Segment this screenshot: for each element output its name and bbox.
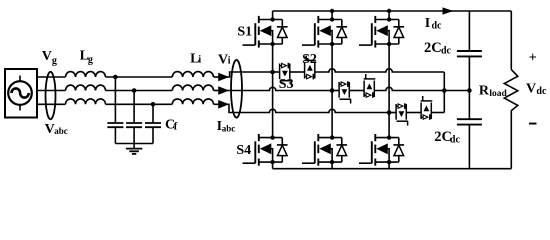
capacitor 2Cdc bottom xyxy=(457,119,482,124)
svg-text:g: g xyxy=(52,55,57,66)
transistor S1 top leg1 xyxy=(243,16,288,48)
ellipse bundle at converter input xyxy=(231,60,242,118)
wire phase c to arrow xyxy=(214,103,219,105)
svg-text:V: V xyxy=(526,82,536,97)
wire bottom stub leg2 xyxy=(331,162,333,169)
wire phase b middle xyxy=(106,90,173,92)
svg-text:V: V xyxy=(218,52,228,67)
node midpoint at capacitors xyxy=(467,88,472,93)
inductor Lg phase c xyxy=(66,99,106,104)
AC source vertical lead xyxy=(19,76,21,111)
ellipse bundle at source xyxy=(46,72,56,119)
node C xyxy=(387,110,392,115)
switch pair3 left xyxy=(396,103,408,125)
svg-text:g: g xyxy=(88,55,93,66)
wire phase b left xyxy=(37,90,66,92)
transistor S4 bottom leg1 xyxy=(243,134,288,166)
switch S2 pair1 right xyxy=(304,56,316,80)
svg-text:f: f xyxy=(174,120,178,132)
wire phase a to arrow xyxy=(214,76,219,78)
wire rail stub leg3 xyxy=(388,11,390,20)
svg-text:dc: dc xyxy=(432,21,443,32)
wire pair1 inner xyxy=(290,71,305,73)
AC source sine wave xyxy=(12,88,29,97)
switch pair3 right xyxy=(421,96,433,120)
AC source circle xyxy=(8,81,32,105)
wire phase a middle xyxy=(106,76,173,78)
capacitor Cf b xyxy=(126,123,142,127)
wire filter drop c xyxy=(152,104,154,123)
arrow phase c xyxy=(218,100,229,109)
wire midpoint bus vertical xyxy=(443,72,445,113)
capacitor 2Cdc top xyxy=(457,51,482,56)
wire phase c left xyxy=(37,103,66,105)
wire leg3 vertical xyxy=(388,44,390,138)
inductor Li phase c xyxy=(172,99,213,104)
svg-text:dc: dc xyxy=(536,86,547,97)
wire pair1 out with hops over leg2 leg3 xyxy=(315,69,445,72)
node A xyxy=(270,70,275,75)
wire phase a left xyxy=(37,76,66,78)
wire filter drop a xyxy=(114,77,116,123)
svg-text:dc: dc xyxy=(441,46,452,57)
wire load branch top xyxy=(510,11,512,70)
wire load branch bottom xyxy=(510,111,512,169)
svg-text:S4: S4 xyxy=(236,143,251,158)
wire bottom stub leg3 xyxy=(388,162,390,169)
transistor bottom leg3 xyxy=(359,134,404,166)
wire bottom cap to rail xyxy=(468,125,470,169)
wire phase a jog up to node A level xyxy=(227,72,273,77)
svg-text:V: V xyxy=(42,49,52,64)
node dot phase b filter tap xyxy=(132,88,137,93)
wire pair2 out with hop over leg3 xyxy=(374,87,469,90)
wire bottom stub leg1 xyxy=(272,162,274,169)
wire leg1 vertical xyxy=(272,44,274,138)
node midpoint bus xyxy=(442,88,447,93)
svg-text:load: load xyxy=(489,89,507,99)
wire filter drop b xyxy=(133,91,135,124)
node dot rail leg3 xyxy=(387,9,391,13)
wire phase c middle xyxy=(106,103,173,105)
switch pair2 left xyxy=(339,81,351,103)
transistor bottom leg2 xyxy=(302,134,347,166)
switch S3 pair1 left xyxy=(280,63,292,85)
wire phase b to node B with hop over leg1 xyxy=(227,87,332,90)
wire pair3 inner xyxy=(406,112,421,114)
node B xyxy=(330,88,335,93)
wire node A to pair1 xyxy=(273,71,280,73)
arrow phase b xyxy=(218,86,229,95)
wire pair3 out xyxy=(431,112,444,114)
wire rail stub leg2 xyxy=(331,11,333,20)
svg-text:S2: S2 xyxy=(302,52,317,67)
svg-text:R: R xyxy=(479,84,490,99)
transistor top leg3 xyxy=(359,16,404,48)
dc minus rail xyxy=(273,168,512,170)
wire cap common rail xyxy=(115,143,153,145)
svg-text:S3: S3 xyxy=(279,77,294,92)
arrow phase a xyxy=(218,73,229,82)
inductor Li phase a xyxy=(172,72,213,77)
wire leg2 vertical xyxy=(331,44,333,138)
wire pair2 inner xyxy=(349,90,364,92)
svg-text:I: I xyxy=(425,16,430,31)
voltage source box xyxy=(5,69,37,118)
wire midpoint to bottom cap xyxy=(468,91,470,120)
svg-text:i: i xyxy=(228,55,231,66)
capacitor Cf a xyxy=(107,123,123,127)
svg-text:abc: abc xyxy=(54,126,68,136)
inductor Li phase b xyxy=(172,85,213,90)
inductor Lg phase a xyxy=(66,72,106,77)
wire rail stub leg1 xyxy=(272,11,274,20)
ground xyxy=(133,144,135,149)
node dot phase c filter tap xyxy=(151,102,156,107)
switch pair2 right xyxy=(364,74,376,98)
node dot rail leg2 xyxy=(330,9,334,13)
wire below caps xyxy=(115,127,153,143)
wire phase b to arrow xyxy=(214,90,219,92)
wire phase c jog down to node C with hops over leg1 leg2 xyxy=(227,104,389,112)
inductor Lg phase b xyxy=(66,85,106,90)
wire node C to pair3 xyxy=(389,112,396,114)
svg-text:i: i xyxy=(198,55,201,66)
svg-text:dc: dc xyxy=(450,135,461,146)
wire between top cap and midpoint xyxy=(468,56,470,90)
svg-text:2C: 2C xyxy=(424,40,442,56)
dc plus rail xyxy=(273,10,512,12)
svg-text:S1: S1 xyxy=(237,25,252,40)
arrow Idc xyxy=(443,7,454,14)
wire node B to pair2 xyxy=(332,90,339,92)
label minus xyxy=(529,123,537,125)
svg-text:abc: abc xyxy=(222,123,236,133)
svg-text:+: + xyxy=(529,51,537,66)
resistor Rload xyxy=(504,70,518,111)
transistor top leg2 xyxy=(302,16,347,48)
node dot phase a filter tap xyxy=(113,75,118,80)
wire dc cap branch upper xyxy=(468,11,470,51)
capacitor Cf c xyxy=(145,123,161,127)
